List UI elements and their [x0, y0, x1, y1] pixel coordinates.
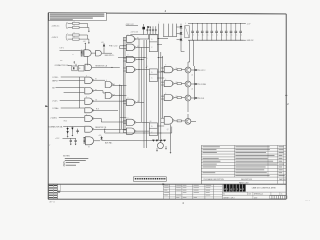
svg-text:C: C	[217, 34, 218, 36]
svg-text:SHEET 1 OF 2: SHEET 1 OF 2	[223, 197, 234, 199]
svg-text:E: E	[165, 65, 166, 67]
svg-text:M7819-0-1: M7819-0-1	[254, 194, 263, 196]
svg-text:C: C	[203, 34, 204, 36]
svg-text:R: R	[74, 37, 75, 39]
svg-text:C: C	[231, 34, 232, 36]
svg-text:B CONN: B CONN	[199, 84, 206, 86]
svg-text:C: C	[193, 34, 194, 36]
svg-text:LINE I/O CONTROL M7N: LINE I/O CONTROL M7N	[252, 188, 276, 190]
svg-text:C: C	[222, 34, 223, 36]
svg-text:B LTC 2: B LTC 2	[199, 70, 205, 72]
svg-text:+5VDC 5: +5VDC 5	[52, 37, 59, 39]
svg-text:C: C	[241, 34, 242, 36]
svg-text:LBP 12: LBP 12	[49, 202, 55, 204]
svg-text:E8: E8	[137, 101, 139, 103]
svg-text:Q2: Q2	[167, 129, 169, 131]
svg-text:DESCRIPTION: DESCRIPTION	[241, 179, 253, 181]
svg-text:E: E	[128, 118, 129, 120]
svg-text:2 CD1 L: 2 CD1 L	[52, 77, 58, 79]
svg-text:E4: E4	[95, 89, 97, 91]
svg-text:E9: E9	[114, 94, 116, 96]
svg-text:C: C	[236, 34, 237, 36]
svg-text:P7B / C2 D: P7B / C2 D	[109, 46, 118, 48]
svg-text:7: 7	[49, 145, 50, 147]
svg-text:E: E	[86, 96, 87, 98]
svg-text:C1: C1	[72, 54, 74, 56]
svg-text:E: E	[128, 34, 129, 36]
svg-text:PARTS LIST: PARTS LIST	[239, 181, 249, 184]
svg-text:BUS RPLY L: BUS RPLY L	[105, 55, 115, 57]
svg-text:R2: R2	[176, 82, 178, 84]
svg-text:E4: E4	[95, 79, 97, 81]
svg-text:B CLK: B CLK	[199, 98, 205, 100]
svg-text:+ R C: + R C	[55, 138, 60, 140]
svg-text:2 CDA L: 2 CDA L	[52, 107, 58, 110]
svg-text:CONNECTOR 5 A: CONNECTOR 5 A	[49, 125, 64, 128]
svg-text:D 1 1: D 1 1	[306, 200, 311, 202]
svg-text:B4: B4	[52, 87, 54, 89]
svg-text:C: C	[227, 34, 228, 36]
svg-text:+5V: +5V	[101, 42, 104, 44]
svg-text:2 CDB L: 2 CDB L	[50, 117, 56, 119]
svg-text:+5V: +5V	[98, 135, 101, 137]
svg-text:NOTES:: NOTES:	[63, 156, 71, 158]
svg-text:R3: R3	[176, 96, 178, 98]
svg-text:+5VDC 5.1: +5VDC 5.1	[52, 25, 60, 27]
svg-text:BUS PA L: BUS PA L	[105, 142, 112, 145]
svg-text:R30: R30	[60, 60, 63, 62]
svg-text:R1: R1	[176, 68, 178, 70]
svg-text:E2: E2	[137, 46, 139, 48]
svg-text:E6: E6	[150, 121, 152, 123]
svg-text:BRPLY: BRPLY	[52, 80, 58, 82]
svg-text:C: C	[198, 34, 199, 36]
svg-text:Q2: Q2	[191, 88, 193, 90]
svg-text:C: C	[207, 34, 208, 36]
svg-text:R: R	[74, 21, 75, 23]
svg-text:GND D2: GND D2	[247, 40, 254, 42]
svg-text:E: E	[86, 75, 87, 77]
svg-text:R 15: R 15	[64, 120, 67, 122]
svg-text:C: C	[212, 34, 213, 36]
svg-text:5 V 5: 5 V 5	[60, 48, 64, 50]
svg-text:E: E	[128, 55, 129, 57]
svg-text:R 21: R 21	[96, 109, 99, 111]
svg-text:R: R	[74, 25, 75, 27]
svg-text:+5V: +5V	[83, 41, 86, 43]
svg-text:E2: E2	[137, 37, 139, 39]
svg-text:D1: D1	[104, 131, 106, 133]
svg-text:E: E	[106, 80, 107, 82]
svg-text:E9: E9	[114, 84, 116, 86]
svg-text:R: R	[74, 33, 75, 35]
svg-text:DIST: DIST	[254, 197, 258, 199]
svg-text:RESISTOR 1 A: RESISTOR 1 A	[95, 65, 107, 68]
svg-text:E: E	[165, 79, 166, 81]
svg-text:E: E	[128, 98, 129, 100]
svg-text:E3: E3	[88, 147, 90, 149]
svg-text:2 CD L: 2 CD L	[52, 100, 57, 102]
svg-text:CONNECTOR 1 A: CONNECTOR 1 A	[55, 64, 70, 67]
svg-text:E9: E9	[96, 99, 98, 101]
svg-text:E: E	[165, 93, 166, 95]
svg-text:+5V C5 C6: +5V C5 C6	[131, 32, 139, 34]
svg-text:E: E	[86, 114, 87, 116]
svg-text:Q1: Q1	[191, 74, 193, 76]
